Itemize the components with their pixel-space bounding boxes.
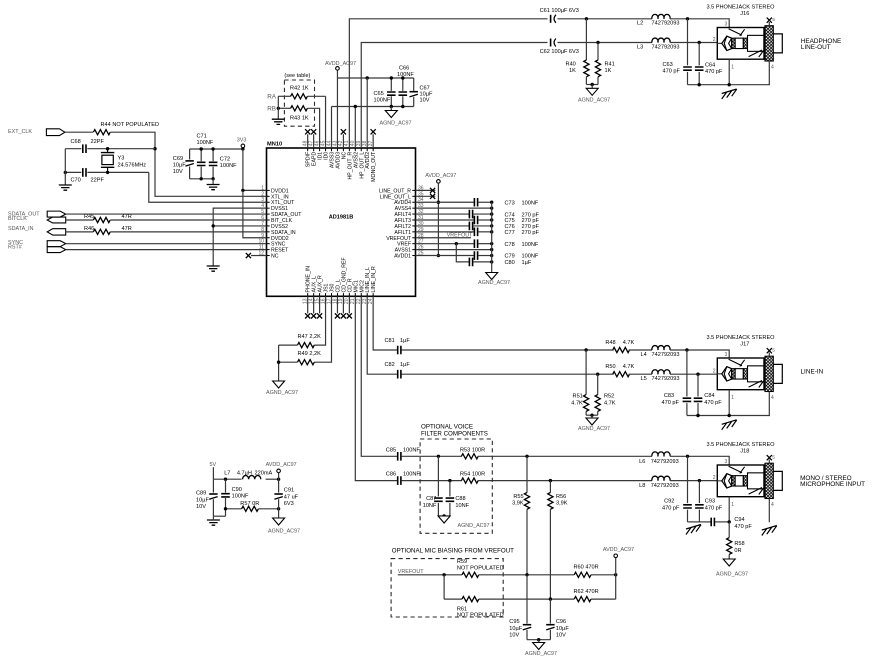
svg-text:C81: C81 [385, 338, 395, 344]
wire AVSS1 pin 26 row [416, 249, 492, 251]
pin 46 ID1 (top) [319, 148, 321, 151]
svg-text:2: 2 [713, 369, 716, 375]
resistor R60 470R [574, 572, 591, 577]
no-connect X pin 15 [319, 296, 321, 313]
phone jack J18 plug tip [722, 474, 732, 488]
pin 5 SDATA_OUT (left) [267, 213, 270, 215]
svg-text:L3: L3 [637, 44, 643, 50]
svg-text:10µF: 10µF [196, 497, 209, 503]
svg-text:R42 1K: R42 1K [290, 86, 309, 92]
wire HP_OUT_R (net A) [349, 19, 547, 148]
no-connect X pin 18 [336, 296, 338, 313]
phone jack J17 plug rings [732, 369, 735, 379]
capacitor C87 10NF [437, 456, 439, 496]
svg-text:1K: 1K [569, 68, 576, 74]
wire VREFOUT pin 28 net label [416, 237, 471, 239]
wire R60 to AVDD [591, 574, 616, 576]
pin 7 DVSS2 (left) [267, 225, 270, 227]
svg-text:R51: R51 [573, 394, 583, 400]
svg-text:C69: C69 [173, 156, 183, 162]
svg-text:100NF: 100NF [522, 200, 539, 206]
junction C87/C88 gnd [442, 514, 445, 517]
junction AVSS1 rail [490, 248, 493, 251]
junction DVDD1 [241, 189, 244, 192]
pin 38 AVDD2 (top) [366, 148, 368, 151]
svg-text:3: 3 [725, 459, 728, 465]
resistor R40 1K [585, 19, 587, 60]
svg-text:OPTIONAL MIC BIASING FROM VREF: OPTIONAL MIC BIASING FROM VREFOUT [392, 547, 514, 554]
svg-text:742792093: 742792093 [652, 376, 680, 382]
wire XTL_OUT to chip pin 3 [149, 172, 267, 202]
phone jack J17 pin 1 stub [728, 390, 730, 416]
wire R59 to R60 [479, 574, 574, 576]
svg-text:C68: C68 [71, 139, 81, 145]
junction R56 top [549, 479, 552, 482]
phone jack J16 pin 1 stub [728, 59, 730, 84]
phone jack J18 pin 1 stub [728, 497, 730, 523]
svg-text:47 uF: 47 uF [284, 494, 299, 500]
capacitor C96 10uF 10V [546, 624, 554, 626]
ground AGND_AC97 (voice filter) [438, 516, 450, 523]
junction R52 top [596, 373, 599, 376]
wire MIC1 pin 21 to C86 [355, 296, 397, 480]
port EXT_CLK [46, 129, 65, 136]
resistor R48 4.7K [613, 347, 630, 352]
resistor R55 3,9K [526, 456, 528, 492]
svg-text:C66: C66 [399, 65, 409, 71]
phone jack J16 plug rings [732, 38, 735, 48]
capacitor C94 470pF [711, 518, 714, 527]
svg-text:10V: 10V [509, 633, 519, 639]
svg-text:3.5 PHONEJACK STEREO: 3.5 PHONEJACK STEREO [706, 335, 775, 341]
capacitor C74 270 pF [469, 210, 472, 219]
wire AVDD rail [337, 77, 413, 79]
wire EXT_CLK to R44 [65, 131, 93, 133]
junction J18 pin1 [728, 520, 731, 523]
pin 9 DVDD2 (left) [267, 237, 270, 239]
svg-text:MICROPHONE INPUT: MICROPHONE INPUT [800, 481, 865, 488]
svg-text:470 pF: 470 pF [662, 506, 680, 512]
svg-text:270 pF: 270 pF [522, 230, 540, 236]
junction C64 top [698, 41, 701, 44]
capacitor C93 470pF [698, 481, 700, 504]
no-connect X pin 48 [307, 134, 309, 148]
capacitor C84 470pF [697, 374, 699, 396]
wire VREFOUT to lower row [443, 575, 445, 599]
chassis ground J18 shield [762, 526, 777, 536]
pin 22 MIC2 (bottom) [360, 293, 362, 296]
pin 28 VREFOUT (right) [412, 237, 415, 239]
no-connect X pin 13 [307, 296, 309, 313]
port SDATA_IN [47, 229, 65, 235]
svg-text:AVDD1: AVDD1 [394, 254, 411, 260]
wire 3V3 rail [190, 148, 243, 150]
pin 18 CD_L (bottom) [336, 293, 338, 296]
svg-text:L5: L5 [641, 376, 647, 382]
ground AGND_AC97 (5V filter) [273, 518, 285, 525]
wire C85 to R53 (net E) [401, 455, 461, 457]
wire C61 to L2 [558, 18, 653, 20]
svg-text:AGND_AC97: AGND_AC97 [716, 572, 748, 578]
pin 16 JS1 (bottom) [325, 293, 327, 296]
svg-text:C79: C79 [505, 254, 515, 260]
phone jack J18 mounting hatch [765, 463, 773, 498]
wire SDATA_OUT to pin 5 [66, 213, 267, 215]
wire AVSS4 pin 33 row [416, 207, 492, 209]
svg-text:RST#: RST# [8, 245, 22, 251]
svg-text:C89: C89 [196, 491, 206, 497]
resistor R56 3,9K [549, 481, 551, 493]
capacitor C72 100NF [212, 149, 214, 161]
junction VREF branch [455, 242, 458, 245]
wire R46 to pin 8 [110, 231, 266, 233]
resistor R46 47R [93, 229, 110, 234]
pin 29 AFILT1 (right) [412, 231, 415, 233]
wire AFILT pin 32 row [416, 213, 469, 215]
capacitor C65 100NF [390, 78, 392, 91]
dashed box optional mic biasing [391, 559, 503, 617]
svg-text:FILTER COMPONENTS: FILTER COMPONENTS [421, 430, 488, 437]
junction C78 rail [490, 242, 493, 245]
svg-text:EXT_CLK: EXT_CLK [8, 129, 32, 135]
junction R41 top [596, 41, 599, 44]
phone jack J17 shield stub [768, 392, 770, 416]
svg-text:742792093: 742792093 [652, 44, 680, 50]
junction crystal top [106, 147, 109, 150]
junction J17 pin1/gnd [728, 414, 731, 417]
svg-text:4.7µH: 4.7µH [237, 471, 252, 477]
svg-text:24.576MHz: 24.576MHz [118, 162, 147, 168]
capacitor C70 22PF [83, 168, 86, 177]
wire L8 to jack J18 pin 2 [670, 480, 717, 482]
pin 34 AVDD4 (right) [412, 201, 415, 203]
pin 30 AFILT2 (right) [412, 225, 415, 227]
junction C65 bottom [390, 105, 393, 108]
svg-text:22PF: 22PF [91, 178, 105, 184]
no-connect X pin 35 [416, 195, 436, 197]
wire RB to R43 [278, 107, 290, 109]
wire R44 to XTL_IN node [110, 132, 266, 196]
wire R51/R52 join [586, 414, 598, 416]
pin 37 MONO_OUT (top) [372, 148, 374, 151]
wire R54 to L8 [478, 480, 652, 482]
ground (DVSS) [207, 266, 220, 271]
svg-text:C62 100µF 6V3: C62 100µF 6V3 [540, 49, 579, 55]
svg-text:R48: R48 [605, 340, 615, 346]
svg-text:L8: L8 [639, 483, 645, 489]
junction C72 bottom [211, 177, 214, 180]
svg-text:100NF: 100NF [522, 254, 539, 260]
wire R48 to L4 [629, 349, 652, 351]
junction R51 top [584, 348, 587, 351]
svg-text:C86: C86 [386, 472, 396, 478]
svg-text:R49 2,2K: R49 2,2K [298, 351, 322, 357]
phone jack J17 pin 2 inner stub [717, 373, 722, 375]
capacitor C92 470pF [687, 456, 689, 503]
wire BITCLK to R45 [66, 219, 94, 221]
wire C86 to R54 (net F) [401, 480, 461, 482]
resistor R42 1K [291, 94, 308, 99]
wire lower row to R61 [444, 598, 462, 600]
svg-text:1µF: 1µF [400, 362, 410, 368]
svg-text:C65: C65 [374, 91, 384, 97]
wire L3 to jack J16 pin 2 [670, 42, 717, 44]
capacitor C82 1uF [398, 370, 401, 379]
pin 12 NC (left) [267, 255, 270, 257]
wire AVDD2 pin 38 [366, 78, 368, 148]
svg-text:R52: R52 [604, 394, 614, 400]
svg-text:MN10: MN10 [267, 142, 282, 148]
svg-text:R56: R56 [556, 494, 566, 500]
svg-text:10V: 10V [196, 504, 206, 510]
svg-text:742792093: 742792093 [651, 483, 679, 489]
svg-text:AVDD_AC97: AVDD_AC97 [266, 462, 297, 468]
svg-text:NC: NC [271, 254, 279, 260]
wire 5V rail left [213, 478, 241, 480]
svg-text:C61 100µF 6V3: C61 100µF 6V3 [540, 8, 579, 14]
svg-text:3.5 PHONEJACK STEREO: 3.5 PHONEJACK STEREO [706, 5, 775, 11]
svg-text:0R: 0R [734, 548, 741, 554]
capacitor C63 470pF [687, 19, 689, 66]
junction AVDD1 [437, 254, 440, 257]
svg-text:C96: C96 [556, 619, 566, 625]
pin 23 LINE_IN_L (bottom) [366, 293, 368, 296]
phone jack J16 switch contact bottom [749, 50, 764, 57]
pin 6 BIT_CLK (left) [267, 219, 270, 221]
pin 33 AVSS4 (right) [412, 207, 415, 209]
capacitor C88 10NF [449, 481, 451, 497]
wire C95/C96 join [527, 639, 550, 641]
wire C89/C90 join [213, 515, 225, 517]
no-connect X pin 12 [251, 255, 267, 257]
svg-text:Y3: Y3 [118, 155, 125, 161]
svg-text:10V: 10V [420, 97, 430, 103]
no-connect X pin 37 [372, 134, 374, 148]
svg-text:C63: C63 [663, 62, 673, 68]
junction VREFOUT branch [442, 573, 445, 576]
resistor R59 NOT POPULATED [462, 572, 479, 577]
svg-text:470 pF: 470 pF [705, 69, 723, 75]
wire AVDD3 pin 43 to rail [336, 70, 338, 148]
wire C82 to R50 (net D) [401, 373, 613, 375]
svg-text:AGND_AC97: AGND_AC97 [578, 426, 610, 432]
phone jack J16 pin 5 no-connect [768, 22, 770, 26]
svg-text:10µF: 10µF [556, 626, 569, 632]
phone jack J16 mounting hatch [765, 26, 773, 61]
resistor R47 2,2K [298, 343, 315, 348]
junction C66 top [401, 76, 404, 79]
ground AGND_AC97 (right rail) [486, 273, 498, 280]
phone jack J18 shield stub [768, 499, 770, 523]
ground AGND_AC97 (R40/R41) [591, 85, 593, 89]
pin 10 SYNC (left) [267, 243, 270, 245]
phone jack J18 body [717, 465, 764, 497]
wire RA/RB common leg [277, 96, 279, 119]
wire AVSS3 pin 44 [331, 107, 333, 149]
ground (RA/RB) [272, 119, 285, 124]
pin 19 CD_GND_REF (bottom) [342, 293, 344, 296]
ground AGND_AC97 (R51/R52) [591, 415, 593, 418]
svg-text:10NF: 10NF [455, 503, 469, 509]
junction C90 top [224, 478, 227, 481]
phone jack J18 pin 2 inner stub [717, 480, 722, 482]
resistor R58 0R [728, 522, 730, 538]
phone jack J17 body [717, 358, 764, 390]
junction C84 top [696, 373, 699, 376]
capacitor C71 100NF [200, 149, 202, 161]
svg-text:100NF: 100NF [232, 494, 249, 500]
junction R55 line at bias row [525, 573, 528, 576]
ground (3V3 decoupling) [207, 185, 220, 190]
pin 4 DVSS1 (left) [267, 207, 270, 209]
pin 15 AUX_R (bottom) [319, 293, 321, 296]
wire R47/R49 common leg [278, 345, 280, 381]
ground AGND_AC97 (R47/R49) [273, 381, 285, 388]
wire JS0 pin 17 to R49 [314, 296, 331, 362]
svg-text:C94: C94 [734, 517, 744, 523]
no-connect X pin 14 [313, 296, 315, 313]
junction XTL_IN [153, 147, 156, 150]
wire AFILT pin 29 row [416, 231, 474, 233]
svg-text:4: 4 [771, 65, 774, 71]
svg-text:4.7K: 4.7K [623, 364, 635, 370]
resistor R41 1K [597, 43, 599, 61]
wire JS1 pin 16 to R47 [314, 296, 325, 345]
svg-text:2: 2 [713, 37, 716, 43]
pin 3 XTL_OUT (left) [267, 201, 270, 203]
pin 40 AVSS2 (top) [354, 148, 356, 151]
svg-text:100NF: 100NF [403, 472, 420, 478]
junction C73 rail [490, 201, 493, 204]
resistor R50 4.7K [613, 372, 630, 377]
junction C92 top [686, 455, 689, 458]
no-connect X pin 42 [342, 134, 344, 148]
capacitor C61 100uF 6V3 [550, 15, 552, 23]
svg-text:NOT POPULATED: NOT POPULATED [457, 613, 504, 619]
capacitor C86 100NF [398, 476, 401, 485]
svg-text:C83: C83 [664, 393, 674, 399]
pin 17 JS0 (bottom) [331, 293, 333, 296]
junction C80 rail [490, 260, 493, 263]
svg-text:1: 1 [731, 65, 734, 71]
junction R57 right [277, 507, 280, 510]
resistor R51 4.7K [585, 350, 587, 395]
pin 2 XTL_IN (left) [267, 195, 270, 197]
capacitor C79 100NF [474, 251, 477, 260]
capacitor C77 270 pF [474, 228, 477, 237]
svg-text:R46: R46 [84, 226, 94, 232]
pin 14 AUX_L (bottom) [313, 293, 315, 296]
pin 25 AVDD1 (right) [412, 255, 415, 257]
phone jack J18 bushing [773, 471, 782, 490]
inductor L7 4.7uH 220mA [243, 475, 261, 479]
wire XTL_OUT row [65, 171, 81, 173]
svg-text:R57 0R: R57 0R [240, 501, 259, 507]
pin 31 AFILT3 (right) [412, 219, 415, 221]
junction AVDD4 [437, 201, 440, 204]
svg-text:R54 100R: R54 100R [460, 472, 485, 478]
wire SDATA_IN to R46 [66, 231, 94, 233]
pin 21 MIC1 (bottom) [354, 293, 356, 296]
junction RB [277, 107, 280, 110]
svg-text:J18: J18 [740, 448, 749, 454]
wire C68/C70 ground leg [64, 149, 66, 185]
svg-text:AVDD_AC97: AVDD_AC97 [325, 61, 356, 67]
junction AVDD 5V node [277, 478, 280, 481]
svg-text:J16: J16 [740, 11, 749, 17]
svg-text:5V: 5V [210, 462, 217, 468]
svg-text:AGND_AC97: AGND_AC97 [525, 651, 557, 657]
resistor R45 47R [93, 217, 110, 222]
wire AVDD bias vertical [615, 558, 617, 600]
junction R55 top [525, 455, 528, 458]
svg-text:AGND_AC97: AGND_AC97 [458, 523, 490, 529]
svg-text:4.7K: 4.7K [571, 400, 583, 406]
svg-text:RA: RA [267, 93, 277, 100]
capacitor C62 100uF 6V3 [550, 39, 552, 47]
wire 3V3 to DVDD1 pin 1 [243, 149, 267, 190]
svg-text:100NF: 100NF [197, 140, 214, 146]
wire C81 to R48 (net C) [401, 349, 613, 351]
svg-text:RB: RB [267, 105, 276, 112]
ground (5V filter) [207, 520, 220, 525]
svg-text:C92: C92 [664, 499, 674, 505]
wire DVSS1 pin 4 [213, 208, 266, 266]
svg-text:C82: C82 [385, 362, 395, 368]
svg-text:742792093: 742792093 [651, 459, 679, 465]
wire R61 to R62 [479, 598, 574, 600]
wire LINE_IN_R pin 24 to C81 [373, 296, 397, 350]
capacitor C95 10uF 10V [523, 624, 531, 626]
svg-text:AGND_AC97: AGND_AC97 [268, 529, 300, 535]
wire L7 to AVDD node [266, 478, 279, 480]
capacitor C67 10uF 10V [413, 78, 415, 91]
svg-text:100NF: 100NF [522, 242, 539, 248]
wire AVSS2 pin 40 [354, 107, 356, 149]
wire AGND rail above chip [332, 106, 414, 108]
svg-text:(see table): (see table) [284, 73, 310, 79]
wire SYNC to pin 10 [66, 243, 267, 245]
capacitor C83 470pF [686, 350, 688, 397]
no-connect X pin 36 [416, 189, 436, 191]
junction DVSS2 [212, 224, 215, 227]
junction C72 top [211, 147, 214, 150]
pin 41 HP_OUT_R (top) [348, 148, 350, 151]
resistor R54 100R [461, 478, 478, 483]
svg-text:C90: C90 [232, 487, 242, 493]
wire R45 to pin 6 [110, 219, 266, 221]
junction AVDD2 [366, 76, 369, 79]
svg-text:C91: C91 [284, 488, 294, 494]
wire RA to R42 [278, 95, 290, 97]
svg-text:C93: C93 [705, 499, 715, 505]
phone jack J18 pin 5 no-connect [768, 460, 770, 464]
svg-text:MONO_OUT: MONO_OUT [371, 151, 377, 182]
wire VREFOUT row [398, 574, 462, 576]
ground (crystal) [59, 185, 72, 190]
svg-text:470 pF: 470 pF [705, 506, 723, 512]
wire AFILT pin 30 row [416, 225, 469, 227]
capacitor C66 100NF [402, 78, 404, 91]
pin 24 LINE_IN_R (bottom) [372, 293, 374, 296]
svg-text:R43 1K: R43 1K [290, 116, 309, 122]
svg-text:6V3: 6V3 [284, 501, 294, 507]
inductor L2 742792093 [652, 14, 670, 18]
phone jack J18 plug rings [732, 476, 735, 486]
wire 3V3 to DVDD2 pin 9 [243, 190, 267, 237]
svg-text:3,9K: 3,9K [556, 501, 568, 507]
svg-text:R62 470R: R62 470R [574, 589, 599, 595]
